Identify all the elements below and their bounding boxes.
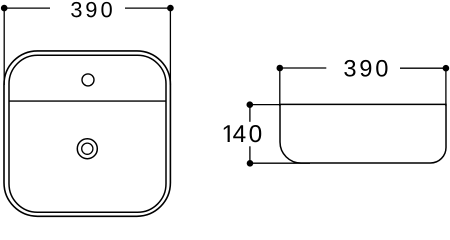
top dimension 390: right line segment	[125, 7, 169, 9]
height dimension 140: bottom extension line	[252, 162, 310, 164]
top dimension 390: right extension line	[169, 8, 171, 85]
drain inner circle	[82, 143, 93, 154]
side dimension 390: left dot	[277, 65, 284, 72]
side dimension 390: left extension line	[279, 68, 281, 106]
height dimension 140: value label	[224, 125, 230, 142]
basin inner rim (rounded square)	[9, 55, 166, 212]
top dimension 390: left dot	[1, 5, 8, 12]
height dimension 140: upper line segment	[249, 107, 251, 122]
height dimension 140: bottom dot	[247, 160, 254, 167]
basin side outline	[280, 104, 446, 163]
top dimension 390: left line segment	[6, 7, 50, 9]
top dimension 390: value label	[71, 2, 81, 17]
top dimension 390: right dot	[167, 5, 174, 12]
side dimension 390: right line segment	[400, 67, 444, 69]
side dimension 390: right dot	[443, 65, 450, 72]
side dimension 390: value label	[344, 60, 355, 77]
side dimension 390: right extension line	[445, 68, 447, 106]
faucet hole	[82, 74, 94, 86]
drain outer circle	[77, 139, 97, 159]
side dimension 390: left line segment	[282, 67, 327, 69]
basin outer rim (rounded square)	[4, 51, 170, 216]
height dimension 140: top dot	[247, 101, 254, 108]
height dimension 140: lower line segment	[249, 146, 251, 161]
height dimension 140: top extension line (collinear with rim)	[252, 104, 281, 106]
deck edge line	[9, 100, 166, 102]
top dimension 390: left extension line	[3, 8, 5, 85]
